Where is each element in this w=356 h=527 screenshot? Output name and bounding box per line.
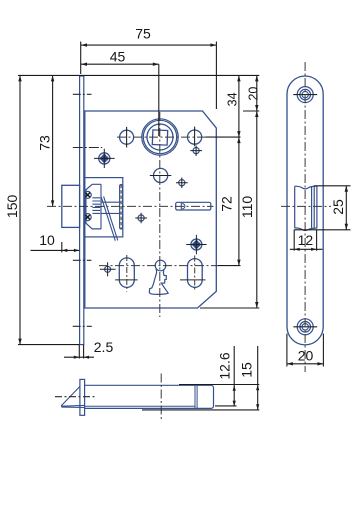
top screw hole (293, 87, 317, 103)
dim 34-72 line (238, 75, 240, 265)
latch tail rails (101, 202, 120, 213)
obround vertical centerlines (127, 255, 195, 292)
case inner lines (85, 385, 198, 408)
faceplate screw lower (84, 214, 91, 221)
latch cutout (295, 186, 317, 231)
svg-text:34: 34 (225, 92, 239, 106)
centerline spindle row (117, 136, 206, 138)
dim 2.5 line (64, 356, 94, 358)
centerline vertical main (159, 112, 161, 317)
dim 20-110 line (256, 75, 258, 308)
20 bottom arrows (287, 362, 293, 365)
hole right of spindle (188, 127, 202, 147)
dim 2.5 exts (79, 345, 83, 359)
72 arrows (237, 137, 240, 143)
svg-text:12.6: 12.6 (216, 352, 232, 379)
faceplate tick y94 (73, 93, 92, 95)
dim 15 line (257, 346, 259, 410)
ext body bottom y308 (200, 307, 259, 309)
small hole w/ cross (right of spindle, below) (190, 146, 202, 157)
dim 25 exts (294, 186, 350, 230)
svg-text:20: 20 (246, 87, 260, 101)
keyhole (149, 260, 168, 294)
guide slot (120, 185, 123, 229)
svg-text:2.5: 2.5 (94, 339, 114, 355)
dim 10 ext (61, 242, 63, 252)
svg-text:10: 10 (39, 232, 55, 248)
dim 20 bottom line (287, 363, 324, 365)
12.6 arrows (233, 385, 236, 391)
ARROWHEADS (18, 43, 348, 409)
spindle follower hub (142, 119, 178, 155)
faceplate tick y326 (73, 325, 92, 327)
dim 12 exts (294, 230, 316, 251)
faceplate edge view (80, 76, 84, 345)
DIMENSIONS (black) (18, 42, 351, 410)
svg-text:45: 45 (110, 48, 126, 64)
73 arrows (51, 75, 54, 81)
svg-text:12: 12 (298, 232, 314, 248)
dim 75 ext left (80, 42, 82, 75)
hole below spindle (150, 168, 172, 182)
svg-text:72: 72 (219, 196, 235, 212)
2.5 arrows (74, 356, 80, 359)
deadbolt slider (176, 202, 211, 210)
small hole w/ cross (bottom left) (100, 262, 116, 276)
dim 10 line (31, 249, 80, 251)
ext body top y111 (243, 110, 259, 112)
latch bolt protruding (front view) (62, 185, 80, 227)
small hole w/ cross (left mid) (135, 213, 147, 224)
latch nose bevel (61, 387, 85, 408)
faceplate tick y260 (73, 259, 92, 261)
110 arrows (255, 111, 258, 117)
ext keyhole center to dim (218, 265, 241, 267)
top extension line y75.4 (18, 74, 259, 76)
bottom view ext 12.6 bottom (215, 405, 237, 407)
dim 20 bottom exts (287, 334, 324, 367)
bottom view centerline (160, 374, 162, 420)
svg-text:110: 110 (239, 196, 255, 219)
15 arrows (256, 385, 259, 391)
ext faceplate bottom (18, 344, 79, 346)
20 top arrows (255, 75, 258, 81)
latch spring coil (92, 184, 101, 229)
faceplate plate outline (287, 76, 323, 345)
spring lever diagonals (101, 196, 118, 240)
bottom screw hole (293, 319, 317, 335)
centerline latch row (47, 205, 214, 207)
right view vertical centerline (304, 62, 306, 372)
dim 25 line (345, 186, 347, 230)
svg-text:25: 25 (330, 199, 346, 215)
small hole w/ cross (center mid) (176, 178, 188, 189)
ext spindle center to dim (206, 136, 241, 138)
dim 12 line (290, 248, 323, 250)
latch case outer (84, 178, 122, 237)
25 arrows (345, 186, 348, 192)
svg-text:20: 20 (298, 348, 314, 364)
svg-text:75: 75 (135, 26, 151, 42)
latch inner block (chamfered) (86, 184, 101, 229)
dim 75 ext right (215, 42, 217, 110)
dim 45 line (81, 63, 159, 65)
faceplate bar (80, 379, 85, 415)
bottom view ext top (179, 384, 259, 386)
faceplate screw upper (84, 191, 91, 198)
screw post lower-right (186, 235, 206, 254)
dim 150 line (19, 75, 21, 344)
150 arrows (18, 75, 21, 81)
45 arrows (81, 62, 87, 65)
svg-text:150: 150 (4, 195, 20, 219)
10 arrows (62, 249, 68, 252)
svg-text:73: 73 (36, 135, 52, 151)
faceplate tick y147 (73, 147, 102, 149)
right view horizontal centerline (281, 205, 331, 207)
dim 75 line (81, 44, 216, 46)
12 arrows (294, 248, 300, 251)
obround hole left (119, 258, 134, 288)
centerline keyhole row (99, 265, 218, 267)
hidden edge (dashed) at slot (120, 185, 122, 229)
obround hole right (188, 259, 203, 288)
34 arrows (237, 75, 240, 81)
bottom view ext bottom (142, 409, 259, 411)
screw post upper-left (94, 149, 115, 168)
svg-text:15: 15 (239, 362, 255, 378)
dim 73 line (52, 75, 54, 206)
obround cross lines (115, 279, 205, 281)
bottom view latch axis (55, 396, 97, 398)
lock body outline (85, 111, 217, 308)
75 arrows (81, 43, 87, 46)
lock case bottom view (85, 385, 214, 408)
dim 12.6 line (233, 346, 235, 406)
hole left of spindle (120, 127, 134, 148)
dim 45 ext right / spindle axis (158, 64, 160, 136)
